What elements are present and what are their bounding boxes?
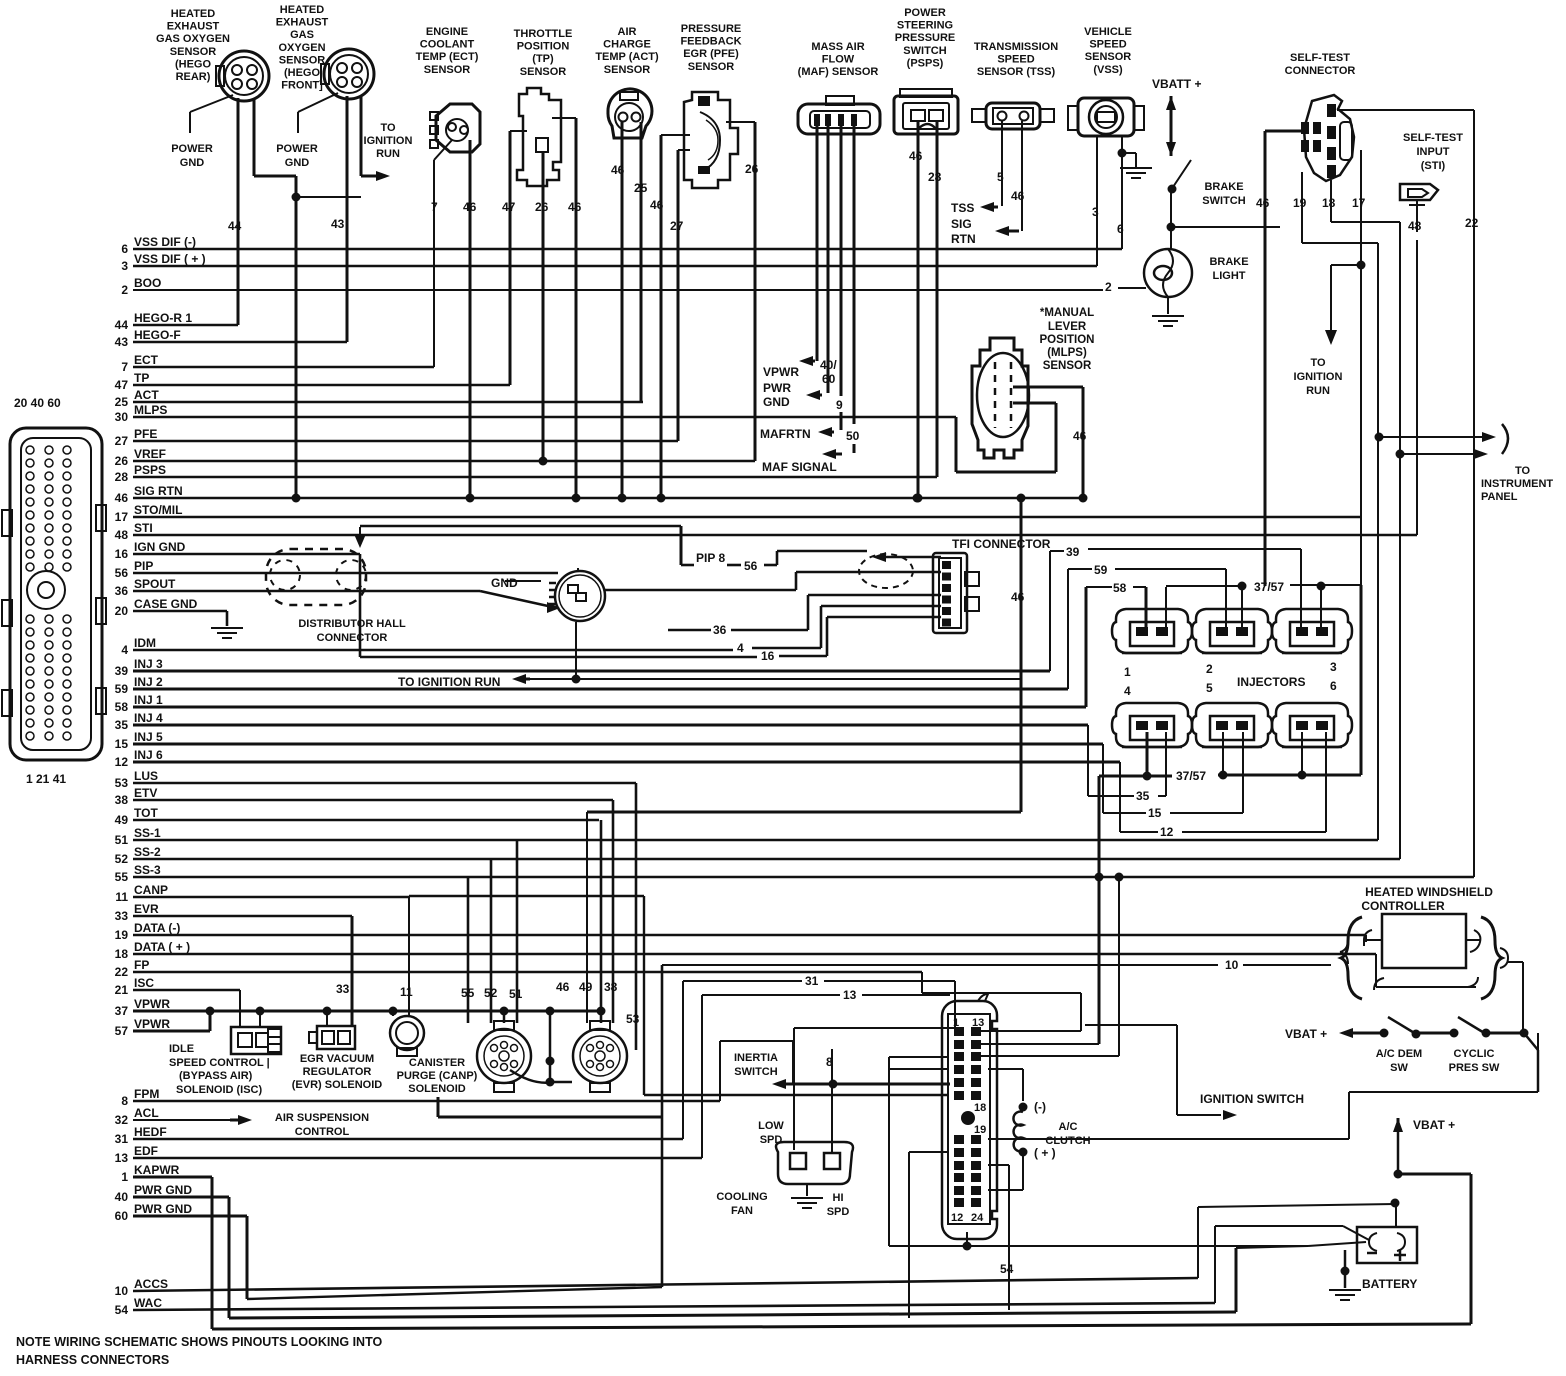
HEGO front signal wire 43 — [346, 96, 349, 342]
svg-text:HEGO-R 1: HEGO-R 1 — [134, 311, 192, 325]
svg-text:56: 56 — [115, 566, 129, 580]
TP wire 26 — [542, 152, 545, 461]
VPWR bus dots — [206, 1007, 215, 1016]
FP route — [921, 972, 923, 993]
svg-text:HEATED: HEATED — [171, 8, 215, 20]
svg-text:ACL: ACL — [134, 1106, 159, 1120]
injector 6 connector — [1272, 703, 1352, 747]
ISC solenoid symbol — [231, 1027, 281, 1054]
ACT wire 25 — [640, 122, 643, 402]
MLPS pin wires — [1013, 386, 1083, 389]
svg-text:26: 26 — [115, 454, 129, 468]
self-test wire 18 — [1330, 180, 1332, 222]
svg-text:EXHAUST: EXHAUST — [276, 17, 329, 29]
svg-text:20 40 60: 20 40 60 — [14, 396, 61, 410]
svg-text:17: 17 — [115, 510, 129, 524]
svg-text:LUS: LUS — [134, 769, 158, 783]
HEGO rear sensor symbol — [219, 51, 269, 101]
ECU 60-pin connector body — [10, 428, 102, 760]
svg-text:CLUTCH: CLUTCH — [1045, 1135, 1090, 1147]
svg-text:BATTERY: BATTERY — [1362, 1277, 1417, 1291]
svg-text:*MANUAL: *MANUAL — [1040, 307, 1094, 319]
svg-text:40: 40 — [115, 1190, 129, 1204]
svg-text:VBAT +: VBAT + — [1413, 1118, 1455, 1132]
svg-text:(PSPS): (PSPS) — [907, 57, 944, 69]
svg-text:HEGO-F: HEGO-F — [134, 328, 181, 342]
row stubs right — [988, 1043, 1099, 1045]
svg-text:IGNITION SWITCH: IGNITION SWITCH — [1200, 1092, 1304, 1106]
svg-text:43: 43 — [331, 217, 345, 231]
svg-text:47: 47 — [502, 200, 516, 214]
svg-text:SWITCH: SWITCH — [734, 1066, 777, 1078]
svg-text:BOO: BOO — [134, 276, 161, 290]
svg-text:INJECTORS: INJECTORS — [1237, 675, 1305, 689]
svg-text:12: 12 — [1160, 825, 1174, 839]
svg-text:MAF SIGNAL: MAF SIGNAL — [762, 460, 837, 474]
svg-text:2: 2 — [1206, 662, 1213, 676]
svg-text:13: 13 — [843, 988, 857, 1002]
svg-text:IGNITION: IGNITION — [1294, 371, 1343, 383]
svg-text:4: 4 — [737, 641, 744, 655]
svg-text:10: 10 — [115, 1284, 129, 1298]
svg-text:24: 24 — [971, 1212, 984, 1224]
svg-text:33: 33 — [115, 909, 129, 923]
svg-text:27: 27 — [670, 219, 684, 233]
svg-text:16: 16 — [115, 547, 129, 561]
right brace — [1481, 917, 1502, 999]
SPOUT arrow into distributor — [480, 591, 548, 606]
ACL arrow to air suspension — [133, 1119, 232, 1121]
svg-text:TEMP (ACT): TEMP (ACT) — [595, 51, 659, 63]
svg-text:SOLENOID (ISC): SOLENOID (ISC) — [176, 1084, 263, 1096]
heated windshield controller box — [1382, 914, 1466, 968]
svg-text:VEHICLE: VEHICLE — [1084, 26, 1132, 38]
svg-text:46: 46 — [1011, 590, 1025, 604]
svg-text:51: 51 — [509, 987, 523, 1001]
svg-text:SS-1: SS-1 — [134, 826, 161, 840]
svg-text:CONNECTOR: CONNECTOR — [1285, 65, 1356, 77]
svg-text:FP: FP — [134, 958, 149, 972]
TSS wire 5 — [1001, 121, 1003, 206]
CANP solenoid symbol — [390, 1016, 424, 1050]
PWR GND 60 route — [246, 1216, 249, 1299]
svg-text:5: 5 — [997, 170, 1004, 184]
transmission connector 1 — [477, 1029, 531, 1083]
svg-text:PANEL: PANEL — [1481, 491, 1518, 503]
svg-text:38: 38 — [604, 980, 618, 994]
svg-text:4: 4 — [121, 643, 128, 657]
HEDF route 31 — [682, 981, 684, 1139]
wire 15 injector5 — [1102, 744, 1104, 813]
svg-text:VPWR: VPWR — [134, 997, 170, 1011]
svg-text:THROTTLE: THROTTLE — [514, 28, 573, 40]
svg-text:TEMP (ECT): TEMP (ECT) — [416, 51, 479, 63]
svg-text:7: 7 — [121, 360, 128, 374]
svg-text:INERTIA: INERTIA — [734, 1052, 778, 1064]
svg-text:A/C DEM: A/C DEM — [1376, 1048, 1422, 1060]
svg-text:OXYGEN: OXYGEN — [278, 42, 325, 54]
svg-text:6: 6 — [1330, 679, 1337, 693]
PFE wire 46 — [661, 134, 690, 136]
svg-text:SOLENOID: SOLENOID — [408, 1083, 466, 1095]
svg-text:6: 6 — [121, 242, 128, 256]
svg-text:46: 46 — [650, 198, 664, 212]
MAF wire 40/60 vpwr — [816, 126, 819, 361]
svg-text:VPWR: VPWR — [763, 365, 799, 379]
svg-text:MLPS: MLPS — [134, 403, 167, 417]
svg-text:10: 10 — [1225, 958, 1239, 972]
brake light ground — [1167, 297, 1169, 314]
MAF wire 9 — [827, 126, 830, 393]
PSPS symbol — [894, 96, 958, 134]
HEGO front power gnd wire — [298, 93, 338, 112]
TSS wire 46 sig rtn — [1021, 121, 1023, 231]
svg-text:37/57: 37/57 — [1254, 580, 1284, 594]
svg-text:ACCS: ACCS — [134, 1277, 168, 1291]
MLPS loop wire — [955, 417, 958, 472]
CANP return path — [437, 1097, 440, 1117]
svg-text:46: 46 — [611, 163, 625, 177]
svg-text:58: 58 — [1113, 581, 1127, 595]
svg-text:SENSOR: SENSOR — [424, 64, 471, 76]
svg-text:SENSOR: SENSOR — [604, 64, 651, 76]
svg-text:1 21 41: 1 21 41 — [26, 772, 66, 786]
svg-text:32: 32 — [115, 1113, 129, 1127]
svg-text:46: 46 — [1256, 196, 1270, 210]
svg-text:AIR SUSPENSION: AIR SUSPENSION — [275, 1112, 369, 1124]
svg-text:ENGINE: ENGINE — [426, 26, 468, 38]
svg-text:(EVR) SOLENOID: (EVR) SOLENOID — [292, 1079, 383, 1091]
svg-text:18: 18 — [974, 1102, 986, 1114]
svg-text:3: 3 — [121, 259, 128, 273]
svg-text:TFI CONNECTOR: TFI CONNECTOR — [952, 537, 1051, 551]
svg-text:GND: GND — [285, 157, 310, 169]
svg-text:EGR VACUUM: EGR VACUUM — [300, 1053, 374, 1065]
svg-text:(STI): (STI) — [1421, 160, 1446, 172]
svg-text:TO: TO — [1310, 357, 1326, 369]
wires 55 52 51 into connector1 — [467, 877, 470, 1023]
svg-text:44: 44 — [228, 219, 242, 233]
svg-text:57: 57 — [115, 1024, 129, 1038]
VSS symbol — [1078, 98, 1134, 136]
svg-text:19: 19 — [974, 1124, 986, 1136]
svg-text:(MAF) SENSOR: (MAF) SENSOR — [798, 66, 879, 78]
svg-text:LOW: LOW — [758, 1120, 784, 1132]
ECT wire pin46 — [469, 140, 472, 498]
svg-text:4: 4 — [1124, 684, 1131, 698]
svg-text:31: 31 — [805, 974, 819, 988]
svg-text:REAR): REAR) — [176, 71, 211, 83]
svg-text:18: 18 — [1322, 196, 1336, 210]
svg-text:22: 22 — [1465, 216, 1479, 230]
CASE GND ground — [226, 611, 229, 626]
injector 4 connector — [1112, 703, 1192, 747]
svg-text:IDLE: IDLE — [169, 1043, 194, 1055]
svg-text:SIG: SIG — [951, 217, 972, 231]
heated windshield feed line 10 — [662, 964, 1218, 966]
svg-text:27: 27 — [115, 434, 129, 448]
svg-text:52: 52 — [484, 986, 498, 1000]
svg-text:EVR: EVR — [134, 902, 159, 916]
svg-text:59: 59 — [1094, 563, 1108, 577]
battery ground — [1344, 1250, 1347, 1288]
svg-text:28: 28 — [928, 170, 942, 184]
svg-text:SPD: SPD — [760, 1134, 783, 1146]
svg-text:TRANSMISSION: TRANSMISSION — [974, 41, 1058, 53]
svg-text:46: 46 — [909, 149, 923, 163]
svg-text:28: 28 — [115, 470, 129, 484]
svg-text:LIGHT: LIGHT — [1213, 270, 1246, 282]
svg-text:SPD: SPD — [827, 1206, 850, 1218]
svg-text:CYCLIC: CYCLIC — [1454, 1048, 1495, 1060]
harness connector body — [942, 1001, 997, 1239]
brake switch blade — [1173, 160, 1191, 187]
svg-text:51: 51 — [115, 833, 129, 847]
PWR GND 40 route — [133, 1196, 229, 1199]
IGN GND top link to PIP8 — [360, 525, 681, 528]
svg-text:SPEED CONTROL |: SPEED CONTROL | — [169, 1057, 270, 1069]
svg-text:1: 1 — [1124, 665, 1131, 679]
svg-text:8: 8 — [121, 1094, 128, 1108]
svg-text:49: 49 — [115, 813, 129, 827]
svg-text:16: 16 — [761, 649, 775, 663]
IDM line to TFI with 4 label — [133, 649, 733, 652]
svg-text:NOTE WIRING SCHEMATIC SHOWS PI: NOTE WIRING SCHEMATIC SHOWS PINOUTS LOOK… — [16, 1335, 382, 1349]
svg-text:SPEED: SPEED — [997, 54, 1034, 66]
svg-text:KAPWR: KAPWR — [134, 1163, 180, 1177]
fan ground — [806, 1184, 808, 1196]
ECT wire pin7 — [434, 140, 452, 160]
svg-text:46: 46 — [115, 491, 129, 505]
svg-text:SPEED: SPEED — [1089, 39, 1126, 51]
svg-text:VSS DIF ( + ): VSS DIF ( + ) — [134, 252, 206, 266]
svg-text:54: 54 — [115, 1303, 129, 1317]
svg-text:26: 26 — [535, 200, 549, 214]
svg-text:(-): (-) — [1034, 1100, 1046, 1114]
svg-text:RUN: RUN — [376, 148, 400, 160]
injector 5 connector — [1192, 703, 1272, 747]
svg-text:POWER: POWER — [171, 143, 213, 155]
HEGO rear wire to sig rtn — [253, 98, 256, 176]
EVR wires — [326, 1011, 328, 1026]
svg-text:STO/MIL: STO/MIL — [134, 503, 182, 517]
svg-text:9: 9 — [836, 398, 843, 412]
svg-text:CANISTER: CANISTER — [409, 1057, 465, 1069]
svg-text:PWR GND: PWR GND — [134, 1202, 192, 1216]
svg-text:15: 15 — [1148, 806, 1162, 820]
HEGO front wire to ignition run arrow — [360, 96, 363, 176]
svg-text:INJ 1: INJ 1 — [134, 693, 163, 707]
svg-text:6: 6 — [1117, 222, 1124, 236]
svg-text:STI: STI — [134, 521, 153, 535]
svg-text:2: 2 — [1105, 280, 1112, 294]
VPWR drops into round connectors — [503, 1011, 506, 1023]
svg-text:STEERING: STEERING — [897, 20, 953, 32]
right outer hook to vbat line — [1500, 948, 1508, 968]
svg-text:30: 30 — [115, 410, 129, 424]
svg-text:55: 55 — [115, 870, 129, 884]
svg-text:SENSOR: SENSOR — [279, 54, 326, 66]
36 wire to TFI — [668, 629, 711, 632]
TSS symbol — [986, 103, 1040, 129]
svg-text:37/57: 37/57 — [1176, 769, 1206, 783]
A/C clutch — [1019, 1103, 1028, 1112]
svg-text:46: 46 — [556, 980, 570, 994]
svg-text:GND: GND — [180, 157, 205, 169]
svg-text:11: 11 — [400, 985, 413, 999]
ACT wire 46 — [621, 122, 624, 498]
svg-text:IDM: IDM — [134, 636, 156, 650]
svg-text:CASE GND: CASE GND — [134, 597, 198, 611]
VSS wire 6 and ground — [1121, 136, 1123, 249]
VBATT feed arrow — [1166, 96, 1176, 110]
svg-text:43: 43 — [115, 335, 129, 349]
svg-text:12: 12 — [115, 755, 129, 769]
trans connector link — [510, 1070, 572, 1083]
svg-text:INJ 4: INJ 4 — [134, 711, 163, 725]
svg-text:58: 58 — [115, 700, 129, 714]
svg-text:WAC: WAC — [134, 1296, 162, 1310]
wire 59 to injector2 — [1067, 569, 1069, 689]
svg-text:TO: TO — [1515, 465, 1531, 477]
svg-text:RUN: RUN — [1306, 385, 1330, 397]
svg-text:46: 46 — [1011, 189, 1025, 203]
svg-text:21: 21 — [115, 983, 129, 997]
svg-text:46: 46 — [463, 200, 477, 214]
self-test connector symbol — [1304, 95, 1354, 181]
svg-text:HEATED: HEATED — [280, 4, 324, 16]
WAC line to battery - — [133, 1303, 1215, 1310]
svg-text:53: 53 — [115, 776, 129, 790]
svg-text:REGULATOR: REGULATOR — [303, 1066, 372, 1078]
STI connector symbol — [1400, 184, 1438, 200]
svg-text:(HEGO: (HEGO — [284, 67, 321, 79]
svg-text:FAN: FAN — [731, 1205, 753, 1217]
svg-text:PURGE (CANP): PURGE (CANP) — [397, 1070, 478, 1082]
svg-text:36: 36 — [115, 584, 129, 598]
svg-text:INJ 3: INJ 3 — [134, 657, 163, 671]
svg-text:MASS AIR: MASS AIR — [811, 41, 864, 53]
svg-text:GND: GND — [491, 576, 518, 590]
harness connector key dot — [961, 1111, 975, 1125]
svg-text:VSS DIF (-): VSS DIF (-) — [134, 235, 196, 249]
svg-text:55: 55 — [461, 986, 475, 1000]
svg-text:IGN GND: IGN GND — [134, 540, 186, 554]
svg-text:ECT: ECT — [134, 353, 159, 367]
37/57 drop to harness connector — [1098, 776, 1101, 1044]
37/57 top feed — [1165, 587, 1167, 627]
VSS wire 3 — [1096, 136, 1098, 266]
small hooks — [1340, 940, 1348, 964]
svg-text:COOLANT: COOLANT — [420, 39, 475, 51]
svg-text:INJ 6: INJ 6 — [134, 748, 163, 762]
svg-text:POWER: POWER — [276, 143, 318, 155]
svg-text:VPWR: VPWR — [134, 1017, 170, 1031]
brake light symbol — [1144, 249, 1192, 297]
svg-text:39: 39 — [1066, 545, 1080, 559]
svg-text:SELF-TEST: SELF-TEST — [1290, 52, 1350, 64]
wire 58 to injector1 — [1085, 587, 1088, 707]
46 wire to TFI — [1020, 498, 1023, 812]
svg-text:DATA (-): DATA (-) — [134, 921, 180, 935]
svg-text:INJ 2: INJ 2 — [134, 675, 163, 689]
dashed junction ellipse — [859, 554, 913, 588]
svg-text:7: 7 — [431, 200, 438, 214]
svg-text:TSS: TSS — [951, 201, 974, 215]
svg-text:PIP 8: PIP 8 — [696, 551, 725, 565]
svg-text:COOLING: COOLING — [716, 1191, 767, 1203]
data wires into controller hooks — [1365, 935, 1367, 942]
svg-text:31: 31 — [115, 1132, 129, 1146]
PFE wire 26 — [726, 121, 755, 123]
FPM route 8 — [719, 1041, 721, 1101]
svg-text:56: 56 — [744, 559, 758, 573]
svg-text:37: 37 — [115, 1004, 129, 1018]
ISC wires — [239, 990, 241, 1027]
svg-text:RTN: RTN — [951, 232, 976, 246]
ECU connector pin circles — [26, 446, 34, 454]
PSPS wire 46 — [917, 121, 920, 498]
svg-text:22: 22 — [115, 965, 129, 979]
svg-text:ACT: ACT — [134, 388, 159, 402]
svg-text:(HEGO: (HEGO — [175, 58, 212, 70]
svg-text:AIR: AIR — [618, 26, 637, 38]
svg-text:CANP: CANP — [134, 883, 168, 897]
svg-text:POWER: POWER — [904, 7, 946, 19]
svg-text:SENSOR: SENSOR — [1085, 51, 1132, 63]
svg-text:54: 54 — [1000, 1262, 1014, 1276]
MAF sensor symbol — [798, 104, 880, 134]
svg-text:SELF-TEST: SELF-TEST — [1403, 132, 1463, 144]
svg-text:15: 15 — [115, 737, 129, 751]
BOO line to brake light — [133, 289, 1103, 291]
svg-text:44: 44 — [115, 318, 129, 332]
svg-text:48: 48 — [1408, 219, 1422, 233]
svg-text:IGNITION: IGNITION — [364, 135, 413, 147]
svg-text:11: 11 — [115, 890, 128, 904]
svg-text:1: 1 — [121, 1170, 128, 1184]
self-test wire 17 — [1360, 150, 1362, 775]
svg-text:13: 13 — [115, 1151, 129, 1165]
EDF route 13 — [701, 995, 703, 1158]
MAF wire 50 maf signal — [853, 126, 856, 424]
svg-text:46: 46 — [1073, 429, 1087, 443]
svg-text:EGR (PFE): EGR (PFE) — [683, 48, 739, 60]
injector 2 connector — [1192, 609, 1272, 653]
svg-text:60: 60 — [115, 1209, 129, 1223]
HEGO front sensor symbol — [324, 49, 374, 99]
svg-text:SPOUT: SPOUT — [134, 577, 176, 591]
injector 1 connector — [1112, 609, 1192, 653]
svg-text:VBATT +: VBATT + — [1152, 77, 1201, 91]
VBAT up arrow — [1393, 1118, 1403, 1132]
svg-text:35: 35 — [115, 718, 129, 732]
ACT sensor symbol — [608, 89, 652, 138]
svg-text:GAS: GAS — [290, 29, 314, 41]
svg-text:CONNECTOR: CONNECTOR — [317, 632, 388, 644]
SS-3 drop to row3 — [1118, 877, 1120, 1056]
svg-text:53: 53 — [626, 1012, 640, 1026]
svg-text:PWR: PWR — [763, 381, 791, 395]
left brace — [1341, 917, 1362, 999]
svg-text:MAFRTN: MAFRTN — [760, 427, 811, 441]
svg-text:SENSOR: SENSOR — [688, 61, 735, 73]
svg-text:VBAT +: VBAT + — [1285, 1027, 1327, 1041]
svg-text:FPM: FPM — [134, 1087, 159, 1101]
svg-text:(TP): (TP) — [532, 53, 554, 65]
svg-text:2: 2 — [121, 283, 128, 297]
to instrument panel arrows — [1375, 433, 1384, 442]
